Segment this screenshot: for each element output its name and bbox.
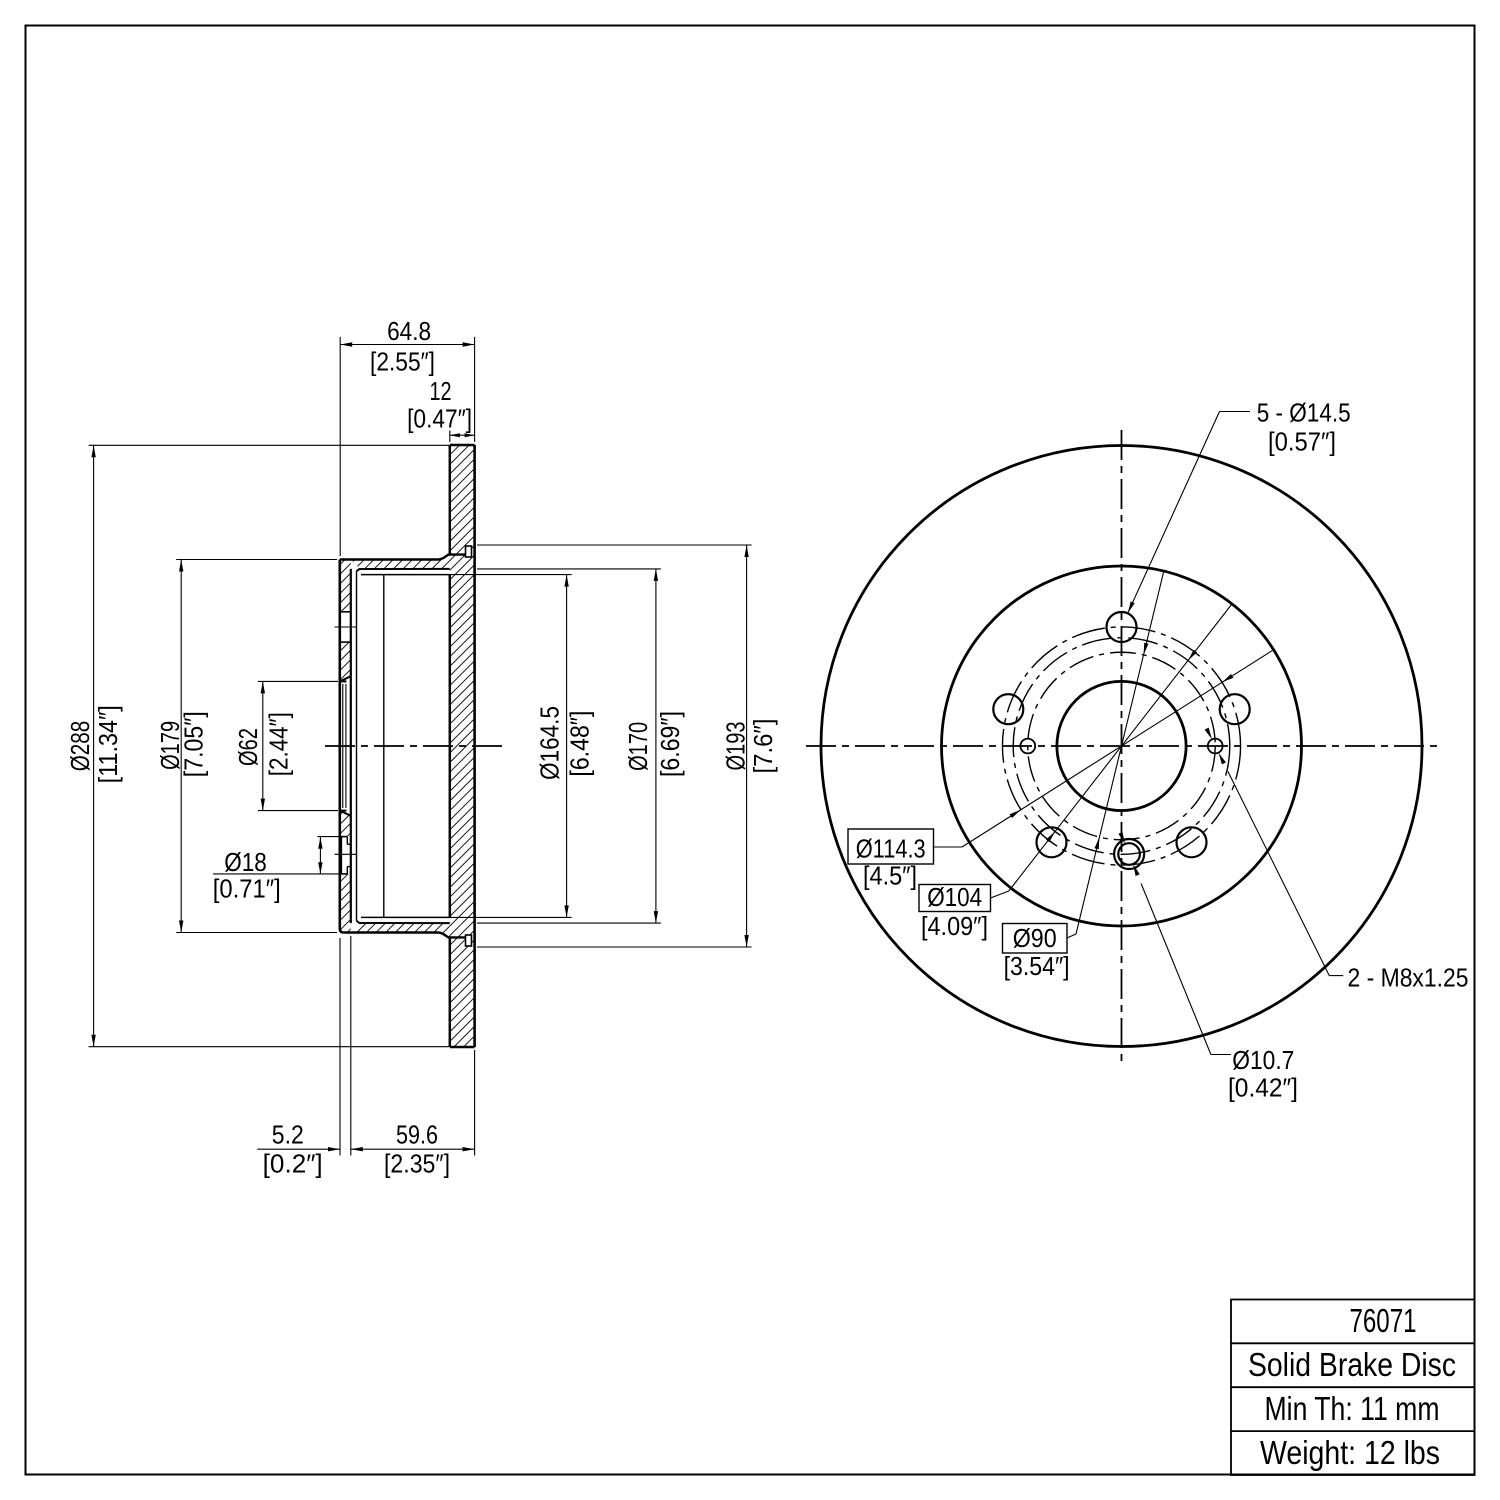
hat junction groove bottom (Ø193 relief) [466, 935, 472, 946]
hat bottom wall outer surface (Ø179) [344, 933, 466, 938]
dim 12 extension line [449, 431, 451, 443]
dim Ø164.5 extension lines [450, 574, 572, 576]
dim Ø62 extension lines [258, 680, 338, 682]
set screw hole center tick [335, 853, 357, 855]
Ø10.7 hole wall [346, 837, 348, 845]
svg-text:5 - Ø14.5: 5 - Ø14.5 [1257, 397, 1351, 427]
bore bottom edge (Ø62) [340, 810, 347, 812]
front view horizontal centerline [806, 745, 1437, 747]
Ø18 counterbore gap edges [340, 836, 348, 838]
bolt hole section gap lower edge [340, 641, 351, 643]
svg-text:[7.05″]: [7.05″] [178, 711, 208, 777]
dim Ø62 arrows [261, 681, 265, 693]
interior cylinder edge at x=356.5 [356, 571, 358, 921]
bolt hole Ø14.5 #3 [1220, 694, 1250, 724]
hat top wall inner surface (Ø170) [357, 569, 450, 571]
svg-text:[6.69″]: [6.69″] [655, 711, 685, 777]
interior step edge line upper (Ø164.5) [361, 574, 450, 576]
dim 59.6 line [351, 1148, 475, 1150]
front view hub bore circle (Ø62) [1057, 681, 1186, 810]
dim Ø288 line [93, 445, 95, 1046]
svg-text:Weight: 12 lbs: Weight: 12 lbs [1260, 1434, 1440, 1471]
bore inner edge lines [342, 684, 344, 808]
svg-text:59.6: 59.6 [396, 1119, 438, 1149]
label box Ø90 [1003, 924, 1068, 954]
svg-text:[2.35″]: [2.35″] [384, 1148, 450, 1178]
bolt hole Ø14.5 #5 [1177, 827, 1207, 857]
svg-text:Solid Brake Disc: Solid Brake Disc [1248, 1346, 1456, 1383]
label box Ø114.3 [848, 829, 934, 864]
dim Ø18 arrows [318, 837, 322, 849]
section hatch: hat bottom wall [351, 923, 450, 938]
svg-text:[6.48″]: [6.48″] [564, 711, 594, 777]
svg-text:[0.57″]: [0.57″] [1268, 427, 1336, 457]
left view axis centerline [325, 745, 505, 747]
section hatch: hat face plate band below bore [340, 811, 351, 837]
bore top edge (Ø62) [340, 680, 347, 682]
bolt hole Ø14.5 #2 [993, 694, 1023, 724]
dim Ø288 arrows [91, 445, 95, 457]
leader 5-Ø14.5 line [1128, 412, 1220, 614]
M8 thread hole right [1208, 739, 1223, 754]
svg-text:[2.44″]: [2.44″] [264, 712, 294, 776]
leader Ø104 line with arrows [1009, 604, 1232, 891]
dim 64.8 extension lines [339, 337, 341, 556]
dim Ø179 extension lines [176, 559, 337, 561]
svg-text:[0.71″]: [0.71″] [213, 874, 281, 904]
svg-text:[3.54″]: [3.54″] [1004, 951, 1070, 981]
leader 5-Ø14.5 tick [1220, 411, 1251, 413]
svg-text:76071: 76071 [1350, 1302, 1417, 1339]
dim 59.6 extension line [474, 1050, 476, 1156]
svg-text:[4.5″]: [4.5″] [863, 861, 917, 891]
dim Ø193 extension lines [477, 544, 752, 546]
dim 5.2 arrow [328, 1147, 340, 1151]
svg-text:Ø170: Ø170 [623, 722, 653, 771]
svg-text:Ø62: Ø62 [233, 728, 263, 766]
svg-text:[11.34″]: [11.34″] [93, 705, 123, 783]
dim Ø193 arrows [744, 545, 748, 557]
hat face plate right surface [350, 569, 352, 923]
svg-text:2 - M8x1.25: 2 - M8x1.25 [1348, 963, 1469, 993]
set screw hole Ø10.7 [1118, 843, 1140, 865]
dim Ø18 connector [317, 836, 341, 838]
dim Ø164.5 line [566, 575, 568, 918]
M8 thread hole left [1020, 739, 1035, 754]
bolt hole Ø14.5 #4 [1037, 827, 1067, 857]
svg-text:Ø164.5: Ø164.5 [534, 706, 564, 780]
section hatch: hat face plate lower band [340, 874, 351, 933]
leader 5-Ø14.5 arrow [1128, 602, 1135, 614]
hat bottom wall inner surface (Ø170) [357, 921, 450, 923]
leader Ø114.3 connector [934, 846, 963, 848]
hat junction groove top (Ø193 relief) [466, 546, 472, 557]
dim Ø170 line [655, 569, 657, 923]
svg-text:[2.55″]: [2.55″] [370, 347, 435, 377]
svg-text:Ø104: Ø104 [927, 882, 982, 912]
dim Ø179 arrows [179, 560, 183, 572]
interior step edge line lower (Ø164.5) [361, 916, 450, 918]
bolt circle Ø114.3 (dash-dot) [1002, 627, 1240, 865]
leader Ø10.7 line with arrows [1141, 884, 1211, 1055]
interior cylinder edge at x=383.8 [383, 575, 385, 918]
dim Ø18 underline [213, 873, 340, 875]
leader Ø90 line with arrows [1076, 571, 1164, 934]
bore bottom chamfer [340, 811, 351, 816]
svg-text:Ø90: Ø90 [1013, 923, 1057, 953]
set screw hole counterbore [1114, 839, 1144, 869]
Ø18 counterbore lip line [341, 837, 343, 874]
dim 12 line [450, 434, 475, 436]
leader Ø10.7 tick [1211, 1054, 1231, 1056]
dim Ø179 line [180, 560, 182, 933]
dim 5.2 extension lines [339, 938, 341, 1156]
disc bar outline (Ø288 x 12 section) [450, 445, 475, 1047]
svg-text:[0.47″]: [0.47″] [407, 403, 472, 433]
leader Ø90 connector [1067, 934, 1076, 938]
leader Ø104 connector [991, 891, 1009, 898]
svg-text:Ø114.3: Ø114.3 [856, 834, 926, 864]
dim Ø193 line [746, 545, 748, 947]
svg-text:Min Th: 11 mm: Min Th: 11 mm [1265, 1390, 1440, 1427]
bolt hole section gap upper edge [340, 611, 351, 613]
front view vertical centerline [1121, 430, 1123, 1063]
label box Ø104 [919, 885, 991, 912]
leader Ø114.3 line with arrows [962, 650, 1274, 847]
dim 5.2 line [257, 1148, 340, 1150]
dim Ø164.5 arrows [564, 575, 568, 587]
leader M8 tick [1329, 975, 1343, 977]
section hatch: hat top wall [351, 554, 450, 569]
dim Ø170 extension lines [477, 568, 661, 570]
dim 64.8 line [340, 344, 474, 346]
section hatch: hat face plate upper band [340, 560, 351, 612]
svg-text:5.2: 5.2 [272, 1119, 304, 1149]
dim 64.8 arrows [340, 342, 352, 346]
bolt hole Ø14.5 #1 [1107, 612, 1137, 642]
dim 12 arrows [450, 433, 460, 437]
svg-text:[0.42″]: [0.42″] [1228, 1073, 1298, 1103]
leader M8 line with arrows [1228, 771, 1329, 975]
svg-text:Ø288: Ø288 [65, 721, 95, 772]
svg-text:[0.2″]: [0.2″] [263, 1148, 323, 1178]
dim Ø288 extension lines [89, 444, 449, 446]
svg-text:Ø193: Ø193 [720, 722, 750, 771]
front view hat circle (Ø172) [942, 566, 1302, 926]
Ø10.7 hole gap edges [347, 843, 351, 845]
dim Ø62 line [262, 681, 264, 810]
svg-text:12: 12 [430, 376, 452, 406]
dim 59.6 arrows [351, 1147, 363, 1151]
dim Ø170 arrows [654, 569, 658, 581]
bore top chamfer [340, 676, 351, 681]
bolt circle Ø104 (dash-dot) [1013, 638, 1230, 855]
section hatch: friction disc bar [450, 445, 475, 1047]
svg-text:Ø10.7: Ø10.7 [1232, 1045, 1294, 1075]
title block frame [1231, 1300, 1475, 1476]
bolt hole center tick [335, 626, 357, 628]
dim Ø18 line [319, 837, 321, 874]
svg-text:[4.09″]: [4.09″] [921, 911, 988, 941]
section hatch: hat face plate band between bolt hole and bore chamfer [340, 642, 351, 681]
bolt circle Ø90 (dash-dot) [1028, 652, 1216, 840]
svg-text:[7.6″]: [7.6″] [748, 719, 778, 774]
svg-text:Ø18: Ø18 [224, 847, 267, 877]
front view outer circle (Ø288) [821, 446, 1422, 1047]
hat top wall outer surface (Ø179) [340, 555, 466, 560]
svg-text:64.8: 64.8 [387, 316, 431, 346]
hat face plate left surface [340, 560, 344, 933]
